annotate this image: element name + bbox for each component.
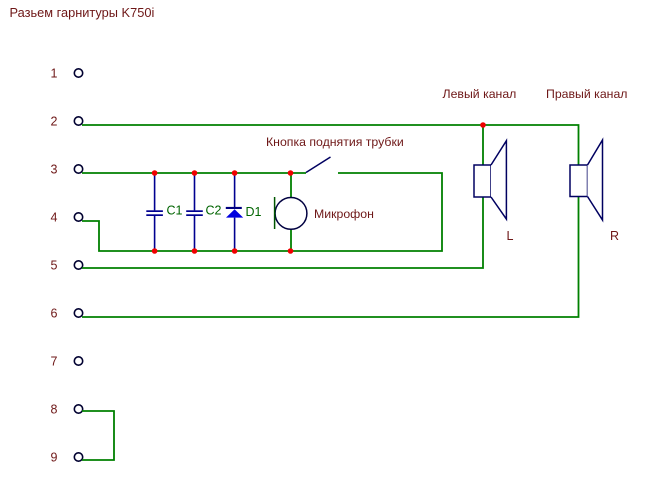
diode D1 xyxy=(226,173,243,252)
speaker L xyxy=(474,141,506,219)
svg-text:Разьем гарнитуры K750i: Разьем гарнитуры K750i xyxy=(10,5,155,20)
switch blade (Кнопка поднятия трубки) xyxy=(306,157,331,173)
microphone M1 xyxy=(275,197,307,229)
junction dot mic top xyxy=(288,170,294,176)
pin 9 circle xyxy=(74,453,82,461)
wire pin8 to pin9 link xyxy=(82,411,114,460)
junction dot mic bottom xyxy=(288,248,294,254)
wire switch output, right drop, bottom rail, pin4 elbow xyxy=(82,173,442,251)
svg-text:3: 3 xyxy=(51,162,58,176)
svg-text:5: 5 xyxy=(51,258,58,272)
pin 8 circle xyxy=(74,405,82,413)
pin 2 circle xyxy=(74,117,82,125)
wire vertical from pin2 node down through left speaker to pin5 wire xyxy=(82,125,483,268)
wire pin3 to switch pivot xyxy=(82,172,306,174)
svg-text:L: L xyxy=(507,229,514,243)
svg-text:2: 2 xyxy=(51,114,58,128)
svg-text:8: 8 xyxy=(51,402,58,416)
pin 4 circle xyxy=(74,213,82,221)
svg-text:Микрофон: Микрофон xyxy=(314,207,374,221)
svg-text:4: 4 xyxy=(51,210,58,224)
svg-text:7: 7 xyxy=(51,354,58,368)
svg-text:Кнопка поднятия трубки: Кнопка поднятия трубки xyxy=(266,135,404,149)
junction dot left channel node xyxy=(480,122,486,128)
speaker R xyxy=(570,140,603,220)
junction dot D1 top xyxy=(232,170,238,176)
pin 7 circle xyxy=(74,357,82,365)
junction dot C1 bottom xyxy=(152,248,158,254)
wire pin2 to right speaker top and down to pin6 wire xyxy=(82,125,579,317)
junction dot C1 top xyxy=(152,170,158,176)
pin 5 circle xyxy=(74,261,82,269)
junction dot D1 bottom xyxy=(232,248,238,254)
pin 6 circle xyxy=(74,309,82,317)
svg-text:Правый канал: Правый канал xyxy=(546,87,627,101)
capacitor C2 xyxy=(186,173,203,252)
svg-text:D1: D1 xyxy=(246,205,262,219)
junction dot C2 top xyxy=(192,170,198,176)
svg-text:9: 9 xyxy=(51,450,58,464)
svg-text:6: 6 xyxy=(51,306,58,320)
junction dot C2 bottom xyxy=(192,248,198,254)
svg-text:R: R xyxy=(610,229,619,243)
pin 3 circle xyxy=(74,165,82,173)
svg-text:Левый канал: Левый канал xyxy=(443,87,517,101)
svg-text:C1: C1 xyxy=(167,204,183,218)
wire microphone vertical xyxy=(290,173,292,251)
capacitor C1 xyxy=(146,173,163,252)
svg-text:C2: C2 xyxy=(206,204,222,218)
pin 1 circle xyxy=(74,69,82,77)
svg-text:1: 1 xyxy=(51,66,58,80)
